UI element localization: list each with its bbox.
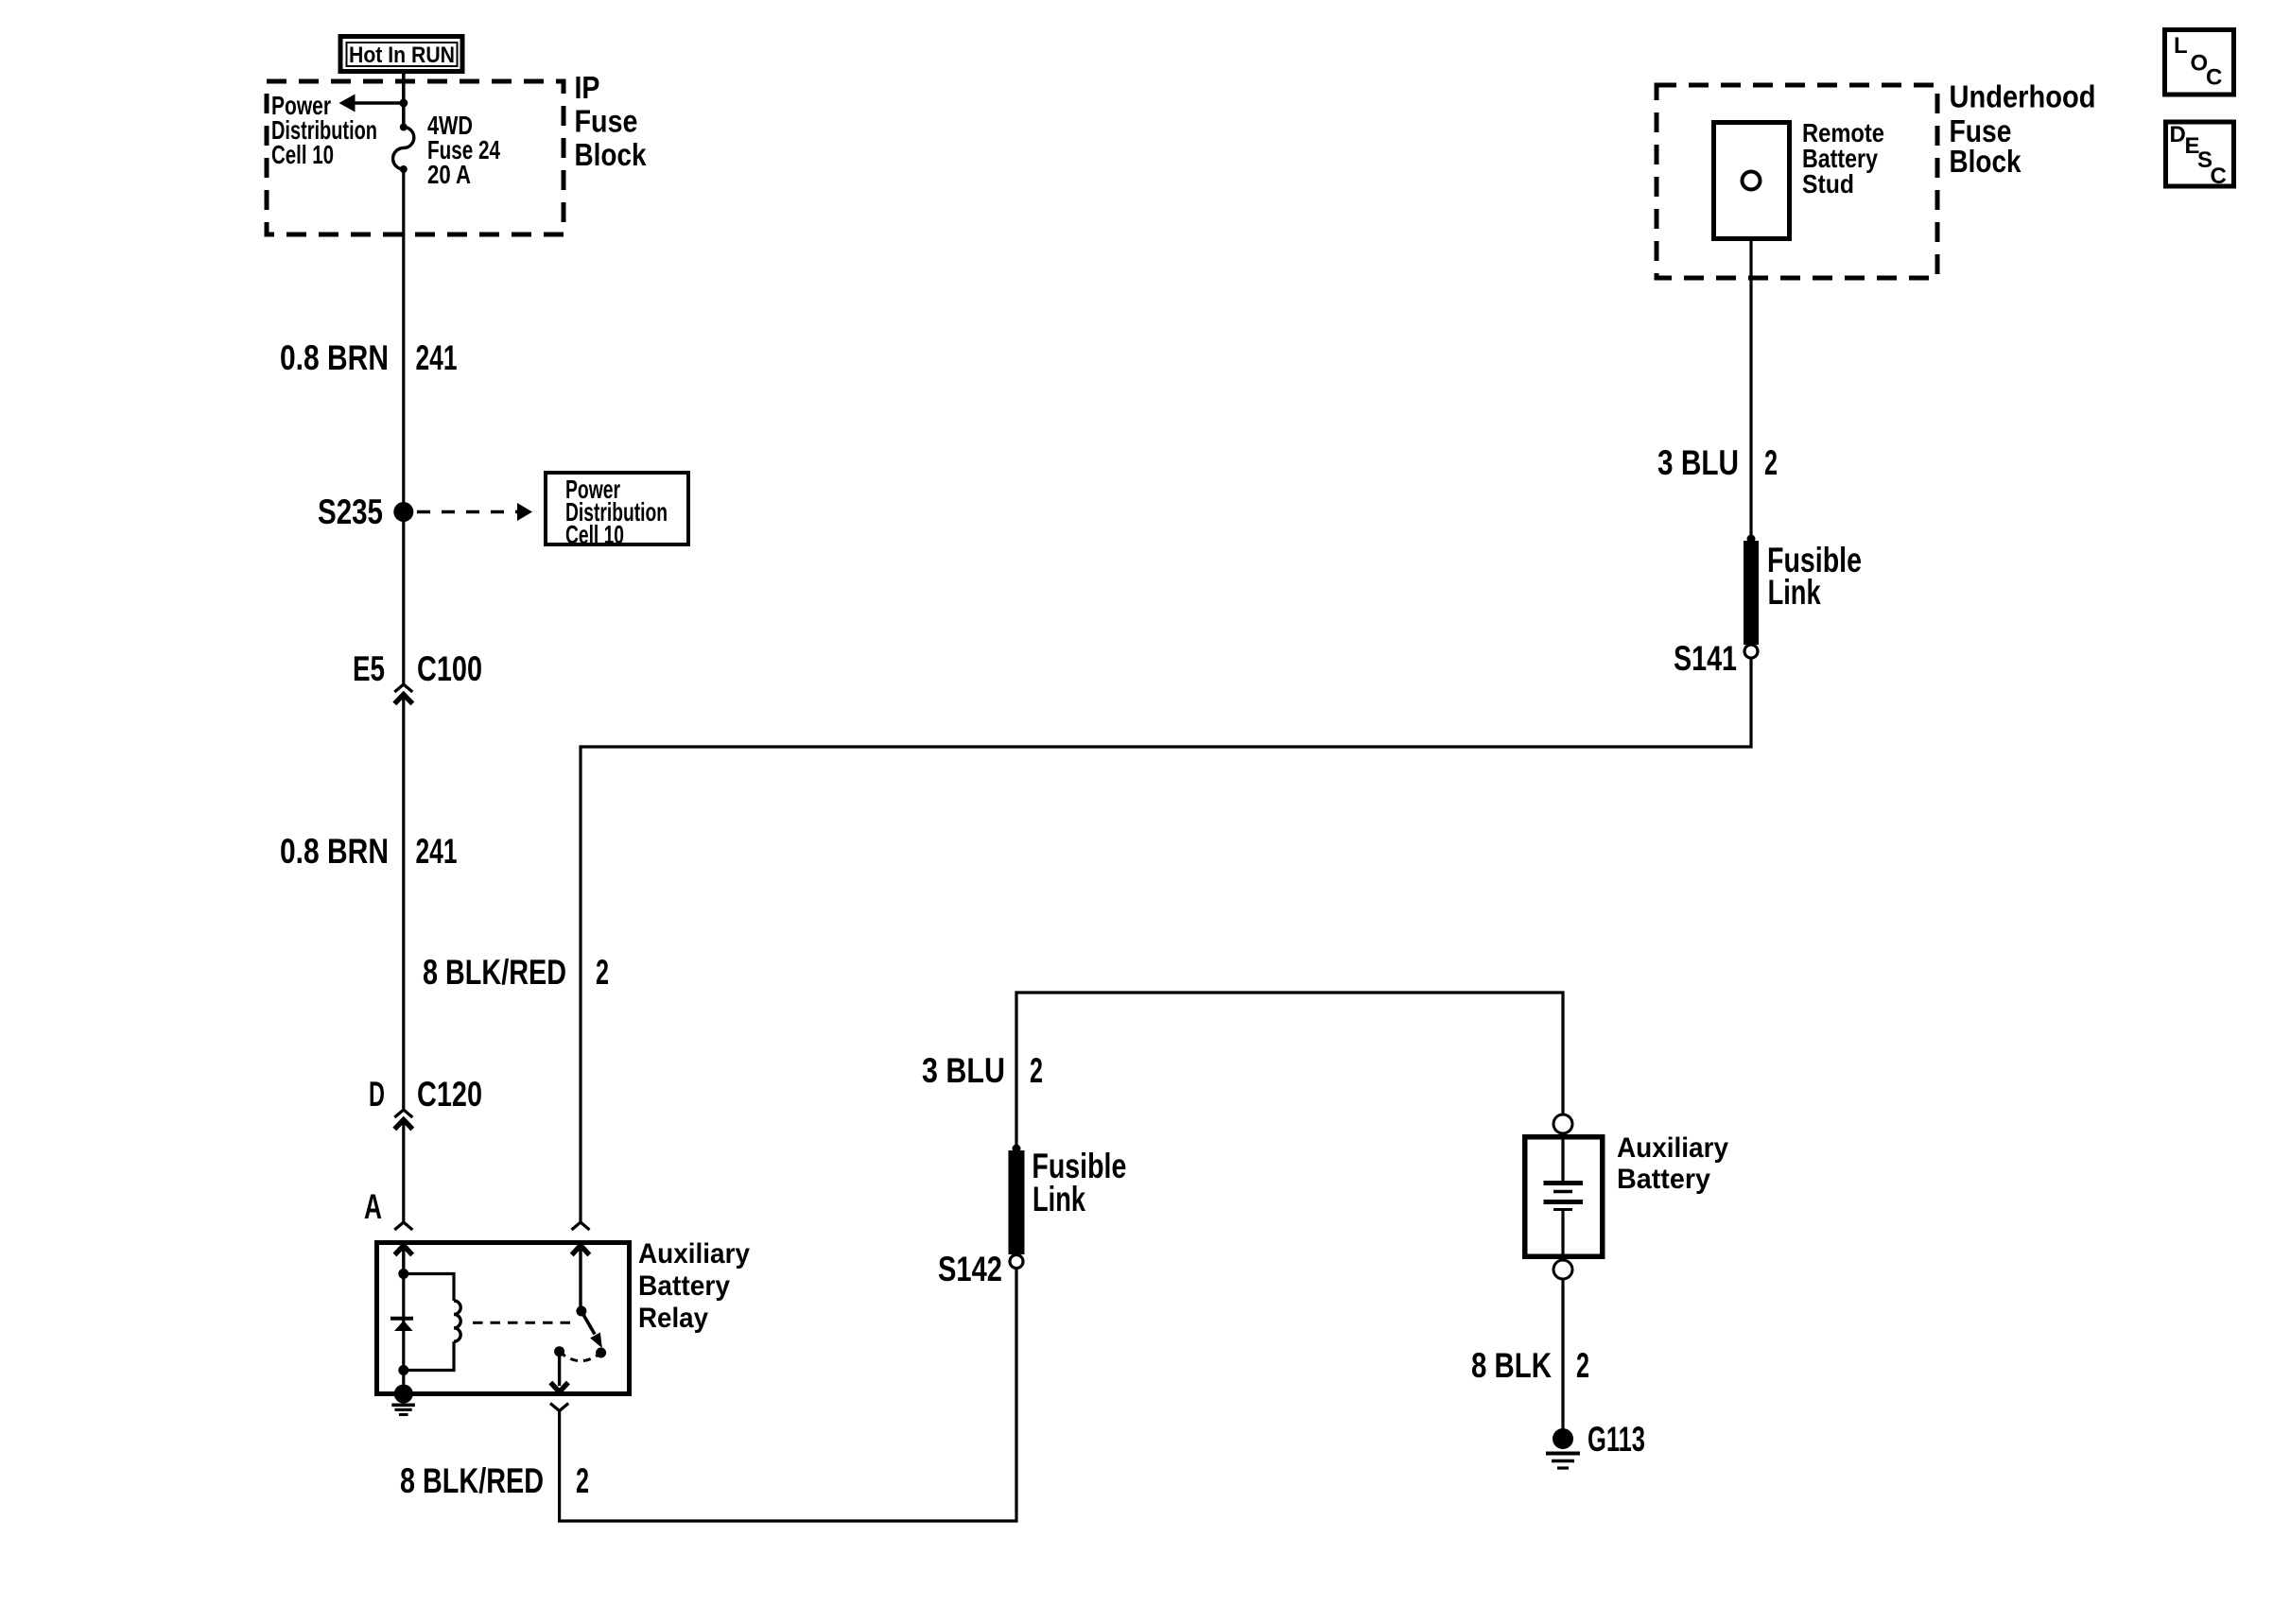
svg-text:8 BLK/RED: 8 BLK/RED xyxy=(400,1461,544,1500)
Fusible Link label (right) xyxy=(1767,541,1862,612)
Fusible Link label (middle) xyxy=(1032,1147,1126,1218)
svg-text:Link: Link xyxy=(1032,1180,1085,1218)
fusible link S142 bar xyxy=(1009,1145,1025,1255)
wire label 0.8 BRN 241 (lower) xyxy=(280,832,458,871)
svg-text:C100: C100 xyxy=(417,649,482,688)
fuse 4WD Fuse 24 xyxy=(393,124,414,174)
wire switch contact down with arrow xyxy=(550,1352,568,1392)
switch blade with arrowhead xyxy=(581,1311,602,1348)
svg-text:3 BLU: 3 BLU xyxy=(922,1051,1005,1090)
wire label 0.8 BRN 241 (upper) xyxy=(280,338,458,377)
Remote Battery Stud label xyxy=(1802,118,1884,199)
IP Fuse Block label xyxy=(575,70,648,172)
wire left pin through diode xyxy=(402,1274,405,1394)
svg-text:2: 2 xyxy=(596,953,609,992)
E5 C100 labels xyxy=(353,649,482,688)
svg-text:Link: Link xyxy=(1768,573,1821,612)
diode clamp xyxy=(390,1319,413,1331)
relay coil xyxy=(454,1301,460,1341)
wire battery to ground xyxy=(1561,1279,1564,1429)
ground symbol under relay xyxy=(391,1405,415,1414)
splice S141 open circle xyxy=(1744,645,1758,658)
svg-text:G113: G113 xyxy=(1588,1420,1645,1459)
wire stud down to fusible link xyxy=(1749,241,1752,538)
svg-text:Cell 10: Cell 10 xyxy=(565,520,624,549)
svg-text:IP: IP xyxy=(575,70,600,105)
svg-text:Fuse: Fuse xyxy=(575,104,638,139)
svg-text:Stud: Stud xyxy=(1802,169,1854,199)
svg-text:E5: E5 xyxy=(353,649,385,688)
wire label 8 BLK/RED 2 (upper) xyxy=(423,953,609,992)
below-box chevron on output pin xyxy=(550,1404,568,1411)
splice S235 xyxy=(393,502,413,522)
wire: fuse to E5 connector xyxy=(402,169,405,684)
svg-text:D: D xyxy=(369,1075,385,1114)
svg-text:Battery: Battery xyxy=(638,1270,730,1302)
svg-text:C: C xyxy=(2211,164,2227,189)
ground G113 xyxy=(1546,1428,1580,1468)
Power Distribution Cell 10 label (IP box) xyxy=(271,91,377,169)
node: junction dot to arrow xyxy=(399,99,408,108)
relay Auxiliary Battery Relay box xyxy=(377,1243,630,1394)
battery cell symbol xyxy=(1544,1140,1584,1257)
4WD Fuse 24 20 A value label xyxy=(427,111,500,189)
wire: C120 to relay pin A xyxy=(402,1120,405,1223)
aux battery bottom circle xyxy=(1553,1260,1572,1279)
svg-text:241: 241 xyxy=(416,832,458,871)
relay right pin arrow inside xyxy=(572,1245,590,1311)
svg-text:2: 2 xyxy=(576,1461,589,1500)
dashed actuation link coil to switch xyxy=(473,1322,576,1324)
svg-text:Block: Block xyxy=(575,137,648,172)
LOC reference box xyxy=(2165,30,2234,95)
svg-text:C: C xyxy=(2206,65,2222,91)
Auxiliary Battery label xyxy=(1617,1132,1728,1195)
svg-text:S235: S235 xyxy=(318,492,383,531)
switch pivot dot xyxy=(576,1306,586,1317)
svg-text:S142: S142 xyxy=(938,1250,1002,1288)
D C120 labels xyxy=(369,1075,482,1114)
svg-text:Block: Block xyxy=(1950,144,2022,179)
wire label 3 BLU 2 (right) xyxy=(1657,443,1778,482)
svg-text:Cell 10: Cell 10 xyxy=(271,140,334,169)
Auxiliary Battery Relay label xyxy=(638,1238,750,1334)
svg-text:20 A: 20 A xyxy=(427,160,471,189)
svg-text:2: 2 xyxy=(1030,1051,1043,1090)
svg-text:Hot In RUN: Hot In RUN xyxy=(349,43,455,68)
Underhood Fuse Block dashed box xyxy=(1657,85,1937,278)
Remote Battery Stud box xyxy=(1714,123,1790,239)
wire coil bottom to node xyxy=(404,1341,454,1370)
svg-text:Auxiliary: Auxiliary xyxy=(638,1238,750,1270)
connector C100 pin E5 xyxy=(394,684,412,704)
wire label 3 BLU 2 (middle) xyxy=(922,1051,1043,1090)
relay coil top node xyxy=(398,1269,408,1279)
svg-text:0.8 BRN: 0.8 BRN xyxy=(280,338,389,377)
stud terminal circle xyxy=(1743,172,1761,190)
wire label 8 BLK/RED 2 (lower) xyxy=(400,1461,589,1500)
relay right pin flare above box xyxy=(572,1222,590,1230)
svg-text:D: D xyxy=(2170,122,2186,147)
switch blade tip contact dot xyxy=(596,1348,606,1358)
svg-text:S141: S141 xyxy=(1674,639,1737,678)
arrow to Power Distribution (left) xyxy=(339,95,404,112)
svg-text:241: 241 xyxy=(416,338,458,377)
svg-text:2: 2 xyxy=(1576,1346,1589,1385)
svg-text:3 BLU: 3 BLU xyxy=(1657,443,1739,482)
bottom run wire xyxy=(560,1269,1016,1522)
dashed arrow S235 to Power Distribution box xyxy=(417,503,532,521)
svg-text:A: A xyxy=(364,1187,382,1226)
splice S142 open circle xyxy=(1010,1255,1023,1269)
Underhood Fuse Block label xyxy=(1950,79,2096,180)
connector C120 pin D xyxy=(394,1110,412,1130)
DESC reference box xyxy=(2166,122,2234,189)
svg-text:8 BLK: 8 BLK xyxy=(1471,1346,1552,1385)
IP Fuse Block dashed box xyxy=(267,81,564,234)
relay ground node big dot xyxy=(394,1385,413,1404)
dashed travel arc xyxy=(560,1352,601,1361)
relay coil bottom node xyxy=(398,1365,408,1375)
svg-text:2: 2 xyxy=(1764,443,1778,482)
relay pin A arrow inside xyxy=(395,1245,413,1274)
wire node to coil top xyxy=(404,1274,454,1302)
Hot In RUN box xyxy=(340,37,462,72)
svg-text:Relay: Relay xyxy=(638,1303,708,1334)
Auxiliary Battery box xyxy=(1525,1137,1603,1257)
wire link up and over to battery xyxy=(1016,993,1563,1148)
wire S141 down, long run left, down to relay xyxy=(581,658,1751,1222)
svg-text:Underhood: Underhood xyxy=(1950,79,2096,114)
svg-text:8 BLK/RED: 8 BLK/RED xyxy=(423,953,566,992)
relay pin A flare above box xyxy=(394,1222,412,1230)
wire: C100 to C120 xyxy=(402,695,405,1111)
wire label 8 BLK 2 xyxy=(1471,1346,1589,1385)
svg-text:Auxiliary: Auxiliary xyxy=(1617,1132,1728,1164)
svg-text:C120: C120 xyxy=(417,1075,482,1114)
wire relay output down xyxy=(558,1411,561,1523)
switch bottom contact dot xyxy=(554,1346,564,1356)
fusible link S141 bar xyxy=(1744,535,1759,646)
Power Distribution Cell 10 box xyxy=(546,473,688,549)
svg-text:Battery: Battery xyxy=(1617,1164,1710,1195)
wire: Hot In RUN box to fuse xyxy=(402,74,406,128)
svg-text:0.8 BRN: 0.8 BRN xyxy=(280,832,389,871)
aux battery top circle xyxy=(1553,1114,1572,1133)
svg-text:L: L xyxy=(2174,33,2188,59)
